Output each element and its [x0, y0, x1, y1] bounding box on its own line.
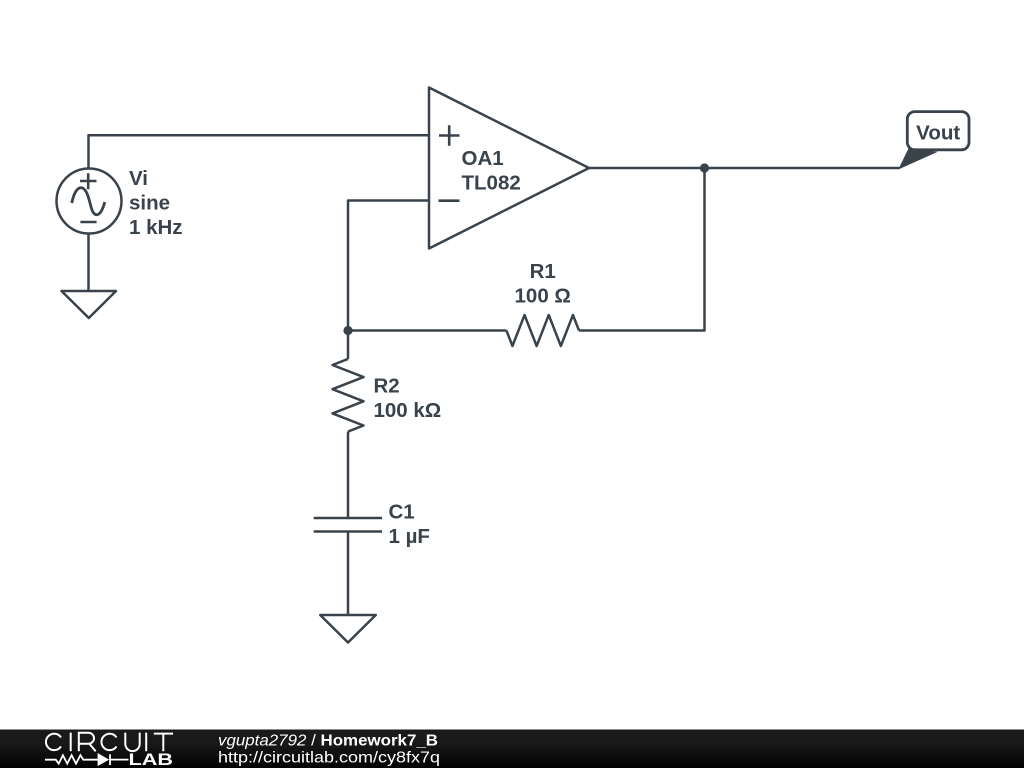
label C1 / 1 µF	[389, 501, 430, 549]
svg-text:100 Ω: 100 Ω	[515, 285, 571, 308]
svg-text:TL082: TL082	[462, 172, 521, 195]
svg-text:R2: R2	[374, 374, 400, 397]
ground (below Vi)	[62, 291, 117, 318]
svg-text:vgupta2792 / Homework7_B: vgupta2792 / Homework7_B	[218, 733, 438, 750]
wire: node A to R1 left	[348, 329, 506, 332]
svg-text:Vout: Vout	[916, 122, 960, 145]
label R2 / 100 kΩ	[374, 374, 442, 422]
footer bar	[0, 730, 1024, 768]
svg-text:http://circuitlab.com/cy8fx7q: http://circuitlab.com/cy8fx7q	[218, 750, 440, 767]
voltage source Vi (sine 1 kHz)	[57, 169, 122, 234]
CircuitLab logo: CIRCUIT	[46, 733, 173, 752]
CircuitLab logo: resistor-diode glyph	[45, 754, 129, 765]
wire: R2 bottom to C1 top plate	[347, 432, 350, 517]
wire: node A to R2 top	[347, 331, 350, 359]
junction node A	[343, 326, 352, 335]
label Vi / sine / 1 kHz	[129, 167, 183, 239]
resistor R1	[506, 315, 579, 346]
wire: op-amp inverting input to node A	[348, 201, 429, 331]
svg-text:1 kHz: 1 kHz	[129, 216, 183, 239]
svg-text:Vi: Vi	[129, 167, 148, 190]
wire: op-amp output to Vout flag	[589, 167, 900, 170]
wire: Vi bottom to ground	[87, 234, 90, 292]
svg-text:OA1: OA1	[462, 147, 504, 170]
svg-text:100 kΩ: 100 kΩ	[374, 399, 442, 422]
wire: Vi top to op-amp non-inverting input	[89, 135, 430, 168]
junction node on output net	[700, 163, 709, 172]
svg-text:sine: sine	[129, 192, 170, 215]
ground (below C1)	[320, 615, 376, 643]
label R1 / 100 Ω	[515, 260, 571, 308]
wire: C1 bottom plate to ground	[347, 532, 350, 616]
svg-text:R1: R1	[530, 260, 556, 283]
svg-text:1 µF: 1 µF	[389, 525, 430, 548]
svg-text:C1: C1	[389, 501, 415, 524]
capacitor C1	[314, 518, 382, 532]
wire: R1 right to output net	[579, 168, 705, 331]
svg-text:LAB: LAB	[129, 750, 174, 768]
net flag Vout	[899, 112, 969, 169]
resistor R2	[333, 359, 364, 432]
op-amp OA1 TL082	[429, 88, 589, 249]
